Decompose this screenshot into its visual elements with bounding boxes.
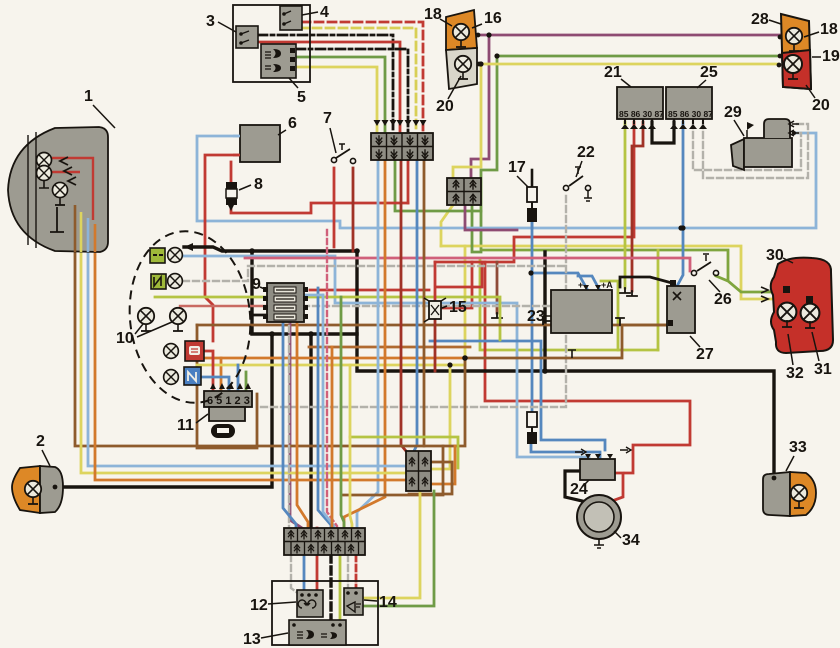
wire dashed-red box4 to CB1	[302, 22, 423, 131]
wire blue fuse17 drop	[531, 221, 534, 228]
label 20 front	[436, 76, 461, 115]
wire red fuse8 to box6	[230, 162, 233, 182]
svg-text:+: +	[578, 280, 583, 290]
wire red branch to diode a	[437, 262, 482, 287]
wire blue third to regulator	[430, 341, 605, 450]
wire red box3 to CB1	[252, 42, 400, 131]
label 2	[36, 433, 50, 466]
indicator green square b	[151, 274, 182, 289]
switch 22	[563, 167, 592, 201]
wire brown headlight to battery	[75, 252, 668, 446]
wire red indicator box drop to pin1	[203, 351, 213, 389]
wire green y348 to terminal	[480, 260, 658, 350]
wire orange stub pin2	[220, 358, 223, 389]
wire orangebrown y347	[309, 346, 470, 349]
svg-text:18: 18	[820, 21, 838, 38]
svg-text:12: 12	[250, 597, 268, 614]
generator 34	[577, 495, 621, 548]
relay 25	[666, 87, 713, 129]
wire green long y248 to switch 26	[481, 250, 786, 292]
speedometer lamps 10	[138, 308, 186, 331]
wire lightblue headlight to CB3	[88, 252, 406, 466]
wire orange conn9 to CB4	[297, 322, 308, 528]
wire orange y358	[200, 357, 465, 360]
indicator green square a	[150, 248, 182, 263]
wire black dash-dot box3 to CB1	[258, 35, 393, 131]
wire graydash switch22 drop	[260, 196, 566, 407]
wire graydash to CB4 pin1	[288, 306, 290, 528]
svg-text:28: 28	[751, 11, 769, 28]
wire red relay21 pin30 jog down	[632, 122, 643, 291]
wire orange CB3 right up	[431, 446, 455, 484]
terminal pin spark	[492, 313, 502, 318]
relay 4	[280, 6, 302, 30]
switch 3	[236, 26, 258, 48]
label 21	[604, 64, 631, 87]
wire yellow y365 to CB4	[350, 365, 352, 528]
label 6	[278, 115, 297, 135]
label 13	[243, 631, 288, 648]
connector block CB4 bottom center	[284, 528, 365, 555]
svg-text:20: 20	[812, 97, 830, 114]
wire blue CB4 to lamp12	[303, 555, 306, 594]
label 10	[116, 322, 172, 347]
wire black battery positive link	[620, 277, 672, 287]
svg-text:20: 20	[436, 98, 454, 115]
wire orange y347 to CB4	[331, 347, 334, 528]
wire green vertical to y248	[481, 56, 497, 248]
wire darkred branch spark	[496, 262, 499, 313]
svg-text:32: 32	[786, 365, 804, 382]
arrows on CB1 feeds	[374, 120, 427, 126]
wire lightblue conn9 to regulator b	[531, 222, 600, 457]
wire yellow CB3 down to lamp14	[364, 491, 420, 598]
label 11	[177, 414, 208, 434]
fuse main near battery	[527, 412, 537, 444]
wire yellow y365	[197, 365, 465, 469]
wire brown CB1 drop	[423, 160, 426, 446]
fuse 17	[527, 187, 537, 222]
wire red y290 to diode	[310, 289, 429, 292]
wire green CB1 drop to junction	[395, 160, 481, 211]
label 5	[289, 78, 306, 106]
wire yellow long to tail lamp	[441, 246, 807, 299]
wire red branch to diode b	[441, 262, 472, 308]
box 6	[233, 125, 280, 162]
svg-text:85 86 30 87: 85 86 30 87	[619, 109, 664, 119]
wire yellowgreen feed to CDI A	[601, 281, 618, 350]
svg-text:13: 13	[243, 631, 261, 648]
assembly box around 3 4 5	[233, 5, 310, 82]
wire yellow headlight to CB3	[81, 252, 406, 473]
wire pink long y259	[245, 258, 690, 271]
wire brown long y325 battery minus	[197, 324, 667, 327]
wire red CB4 to lamp12	[316, 528, 319, 594]
wire blue y288 to CB4	[318, 288, 331, 528]
label 34	[614, 531, 640, 549]
wire green CB2 drop	[472, 205, 481, 252]
label 31	[812, 332, 832, 378]
terminal tick on brown near battery	[616, 318, 624, 325]
wire blue CB1 to CB3	[414, 160, 417, 451]
terminal tick red end	[627, 291, 637, 296]
relay 21	[617, 87, 664, 129]
wire blue relay25 drop	[682, 122, 685, 228]
wire lightblue stub conn9	[303, 294, 323, 297]
wire yellowgreen CB4 to switch13	[339, 555, 342, 621]
label 16	[472, 10, 502, 28]
label 4	[302, 4, 329, 21]
wire pinkdash vertical to CB4	[327, 230, 337, 528]
wire lightblue main net box6 to coil29	[197, 133, 816, 228]
wire green y297 to CB4	[341, 297, 344, 528]
svg-text:33: 33	[789, 439, 807, 456]
wire graydash CB4 to lamp12	[291, 555, 299, 594]
wire red to regulator 24	[485, 262, 690, 473]
dimmer switch 13	[289, 620, 346, 645]
wire yellow vertical x465	[464, 246, 467, 365]
wire black stub conn9	[252, 314, 266, 317]
svg-text:30: 30	[766, 247, 784, 264]
wire darkred switch7 drop	[352, 168, 355, 251]
svg-text:34: 34	[622, 532, 640, 549]
svg-text:25: 25	[700, 64, 718, 81]
label 27	[690, 336, 714, 363]
wire graydash indicator to switch22	[183, 266, 565, 281]
wire black vertical x545	[543, 252, 546, 371]
wire darkred CB1 to CB3	[401, 160, 406, 451]
wire blue battery branch	[676, 228, 683, 288]
CDI box 23	[543, 280, 613, 333]
wire yellow CB2 out diagonal	[441, 205, 453, 246]
svg-text:23: 23	[527, 308, 545, 325]
svg-text:6 5 1 2 3: 6 5 1 2 3	[207, 395, 250, 407]
svg-text:18: 18	[424, 6, 442, 23]
svg-text:11: 11	[177, 417, 194, 434]
wire pink stub conn9	[180, 305, 266, 307]
label 18 left	[424, 6, 452, 26]
wire red relay21 to diode15	[435, 122, 634, 262]
wire lightblue y295 to CB4	[323, 295, 334, 528]
label 22	[576, 144, 595, 177]
svg-text:10: 10	[116, 330, 134, 347]
ignition coil 29	[731, 119, 799, 170]
svg-text:8: 8	[254, 176, 263, 193]
headlight 1	[8, 127, 108, 252]
svg-text:17: 17	[508, 159, 526, 176]
label 29	[724, 104, 744, 136]
tail lamp 30	[761, 258, 833, 353]
svg-text:+A: +A	[601, 280, 613, 290]
wire black main frame net	[184, 247, 774, 473]
label 8	[239, 176, 263, 193]
wire black relay jumper	[652, 122, 674, 143]
label 14	[364, 594, 397, 611]
wire lightblue CB1 to CB4	[357, 160, 378, 528]
wire brown loop around switch11	[197, 325, 257, 448]
label 26	[709, 280, 732, 308]
wire yellowgreen vertical x655	[657, 250, 660, 350]
svg-text:3: 3	[206, 13, 215, 30]
svg-text:85 86 30 87: 85 86 30 87	[668, 109, 713, 119]
wire red diode15 top	[434, 262, 437, 301]
wire yellowgreen long y297	[155, 297, 500, 340]
horn 14	[344, 588, 363, 615]
wire orange CB1 to CB4	[344, 160, 385, 528]
wire graydash relay25 to coil29 b	[703, 122, 808, 178]
label 32	[786, 334, 804, 382]
wire black lamp2 ground	[62, 334, 272, 487]
indicator blue box neutral	[164, 367, 201, 385]
wire red regulator to generator	[612, 473, 623, 501]
svg-text:9: 9	[252, 276, 261, 293]
wire black to CB4	[309, 334, 312, 528]
flasher 12	[297, 590, 323, 617]
wire red switch7 drop	[333, 168, 336, 247]
svg-text:6: 6	[288, 115, 297, 132]
label 1	[84, 88, 115, 128]
svg-text:2: 2	[36, 433, 45, 450]
label 23	[527, 308, 551, 325]
wire purple lamp16 to lamp28	[479, 34, 780, 37]
svg-text:1: 1	[84, 88, 93, 105]
wire red fuse8 to CB1 drop	[231, 203, 408, 213]
switch 7	[331, 144, 355, 164]
label 19	[812, 48, 840, 65]
wire graydash relay25 to coil29 a	[693, 122, 801, 170]
indicator red box charge	[164, 341, 204, 361]
wire yellow box5 to CB1	[296, 67, 377, 131]
wire blue stub pin4	[237, 365, 240, 389]
label 3	[206, 13, 236, 32]
wire green stub pin5	[245, 372, 248, 389]
regulator 24	[575, 447, 631, 480]
turn signal lamp 2 front left	[12, 466, 63, 513]
svg-text:14: 14	[379, 594, 397, 611]
parking lamp 20 front right	[446, 48, 481, 89]
connector block CB2	[447, 178, 481, 205]
wire graydash conn9 right	[303, 305, 610, 307]
svg-text:5: 5	[297, 89, 306, 106]
svg-text:15: 15	[449, 299, 467, 316]
label 25	[697, 64, 718, 88]
label 17	[508, 159, 528, 187]
wire purple CB2 east	[465, 205, 517, 230]
switch 5 headlight	[261, 44, 296, 78]
svg-text:21: 21	[604, 64, 622, 81]
label 15	[442, 299, 467, 316]
wire black regulator to generator	[565, 471, 582, 501]
connector block CB1 top center	[371, 133, 433, 160]
diode 15	[424, 298, 446, 322]
svg-text:27: 27	[696, 346, 714, 363]
label 24	[570, 480, 589, 498]
wire brown loop CB3 low	[343, 446, 443, 495]
svg-text:19: 19	[822, 48, 840, 65]
svg-text:22: 22	[577, 144, 595, 161]
wire yellowgreen loop CB3 top	[350, 437, 458, 468]
wire dashed-yellow box4 to CB1	[300, 28, 416, 131]
wire blue conn9 to CB4	[283, 322, 296, 528]
wire purple branch down to CB2	[471, 35, 489, 178]
label 20 rear	[806, 85, 830, 114]
wire red CB1 drop	[407, 160, 410, 203]
label 7	[323, 110, 336, 153]
wire yellowgreen relay21 pin85 drop	[624, 122, 627, 288]
wire yellow lamp20 to lamp28	[480, 63, 778, 66]
ground mark on earth wire	[568, 350, 576, 358]
wire black dash-dot box5 to CB1	[296, 49, 408, 131]
wire orange headlight to CB3	[95, 252, 406, 480]
wire green box5 to CB1	[296, 57, 385, 131]
turn signal lamp 16 front right	[446, 10, 480, 50]
battery 27	[667, 280, 695, 333]
wire dashred CB4 to horn14	[355, 555, 358, 590]
label 9	[252, 276, 267, 293]
svg-text:26: 26	[714, 291, 732, 308]
wire blackdash CB4 to switch13	[329, 555, 332, 621]
wire graydash CB4 to horn14	[347, 555, 349, 590]
terminal tick yellowgreen end	[620, 288, 630, 293]
wire purple conn9 to CB4	[290, 322, 302, 528]
svg-text:16: 16	[484, 10, 502, 27]
wire yellow branch into CB2	[453, 64, 481, 178]
wire blue fork into CDI 23	[531, 273, 599, 289]
arrowhead black start	[184, 243, 193, 251]
turn signal lamp 33 rear left	[763, 472, 816, 516]
label 28	[751, 11, 781, 28]
bottom assembly box 12 13 14	[272, 581, 378, 645]
wire green lamp junction to lamp28	[497, 55, 780, 58]
wire green CB3 down to lamp14	[364, 491, 434, 606]
ignition switch 11	[204, 383, 252, 438]
wire darkred diode15 bottom	[434, 319, 437, 371]
wire black branch down left	[252, 251, 357, 334]
svg-text:29: 29	[724, 104, 742, 121]
instrument cluster dashed ellipse	[121, 225, 258, 409]
label 18 right	[804, 21, 838, 38]
wire red box6 to indicator	[205, 155, 240, 341]
switch 26	[691, 254, 718, 276]
label 12	[250, 597, 296, 614]
svg-text:4: 4	[320, 4, 329, 21]
wire blue indicator box drop to pin3	[200, 377, 229, 389]
label 30	[766, 247, 793, 264]
connector 9	[263, 283, 308, 322]
wire brown loop CB3 side	[409, 462, 452, 494]
fuse 8	[226, 182, 237, 211]
wire black fuse17 stub	[531, 170, 534, 187]
svg-text:7: 7	[323, 110, 332, 127]
wire lightblue bulb to regulator	[181, 256, 589, 457]
svg-text:31: 31	[814, 361, 832, 378]
label 33	[786, 439, 807, 471]
connector block CB3	[406, 451, 431, 491]
tail lamp cluster 28 right	[777, 14, 811, 89]
